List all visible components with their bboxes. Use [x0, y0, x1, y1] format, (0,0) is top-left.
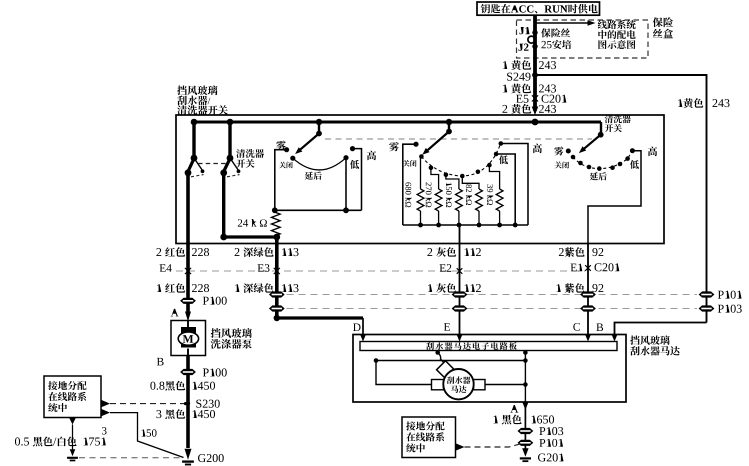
ground distribution callout box (right)	[402, 417, 456, 458]
connector P103 (right)	[699, 305, 715, 311]
pin D arrow	[353, 323, 361, 331]
washer pump box	[171, 321, 206, 356]
connector P100 (ground side)	[180, 369, 196, 375]
wafer 2 pivot	[446, 119, 452, 125]
wire: washer sw2 output to delay node	[222, 173, 225, 237]
switch assembly label	[177, 86, 187, 96]
fuse box (dashed)	[517, 20, 649, 58]
wire: 1 black 1650 to G201	[524, 402, 526, 451]
dashed line to P101	[287, 294, 698, 296]
in-line connector E1 / C201	[571, 264, 577, 272]
wire: ground box to G200 (circuit 150)	[101, 409, 110, 417]
pin A of washer pump	[171, 309, 179, 317]
connector P101 (right)	[699, 291, 715, 297]
washer pump label	[211, 328, 221, 338]
node: brush feed from board	[435, 350, 440, 355]
power feed label box: key in ACC/RUN	[477, 2, 600, 15]
wire: 2 dk green 113 / 1 dk green 113 to pin D	[275, 237, 279, 318]
wafer 1 MIST contact	[276, 140, 286, 149]
wire: 0.5 black/white 1751 to ground	[69, 418, 76, 425]
wiper motor M	[443, 369, 473, 399]
resistor 39k	[487, 184, 493, 188]
pin E arrow	[444, 323, 450, 331]
pass-through dashed line E4/E3/E2/E1	[176, 270, 585, 272]
connector P101 (motor ground)	[518, 440, 534, 446]
wafer 3 MIST contact	[554, 146, 563, 155]
arrow into wiper/washer switch	[532, 107, 539, 116]
grommet E4	[160, 264, 166, 272]
washer pump motor M	[181, 327, 196, 348]
node: delay output junction	[273, 234, 280, 241]
wafer 1 DELAY arc	[293, 158, 346, 170]
connector pair on purple wire	[580, 291, 596, 297]
wafer 3 contact arc (dashed with studs)	[573, 151, 632, 169]
wire: main feed from key power into fuse	[533, 15, 537, 110]
fuse F25 symbol with terminals J1 J2	[519, 27, 524, 34]
wafer 1 HIGH contact	[350, 146, 355, 151]
splice S249	[532, 72, 538, 78]
resistor 150k	[446, 183, 452, 186]
pin B arrow	[596, 323, 603, 331]
pin A arrow out of motor	[510, 405, 518, 413]
pin B of washer pump	[157, 358, 164, 366]
resistor 82k	[466, 184, 472, 188]
wiper motor electronic circuit board	[360, 342, 617, 351]
wire label 1 yellow 243 below S249	[503, 84, 507, 92]
arrow to distribution diagram note	[535, 22, 588, 24]
windshield wiper motor outer box	[353, 335, 626, 403]
wafer 1 LOW contact	[343, 155, 348, 160]
windshield wiper/washer switch outer box	[176, 115, 664, 244]
resistor 24 kOhm	[238, 219, 242, 226]
resistor 680k	[405, 182, 411, 186]
dashed line to P103	[287, 308, 698, 310]
node: green wire corner to D	[274, 315, 280, 321]
grommet E3	[258, 264, 264, 272]
wire label 0.8 black 1450	[150, 382, 155, 390]
wire: board to pin A vertical	[524, 351, 526, 403]
gang dashed link line across switches	[325, 138, 592, 140]
wafer 3 pivot	[600, 122, 602, 135]
wafer 3 LOW contact	[630, 160, 639, 169]
wiper motor terminals	[432, 380, 444, 390]
wire label 2 yellow 243	[502, 105, 507, 113]
connector P103 (motor ground)	[518, 428, 534, 434]
pin C arrow	[573, 323, 580, 331]
wafer 1 OFF contact	[290, 156, 295, 161]
washer switch contact 2	[227, 119, 234, 126]
wafer 2 OFF contact	[403, 160, 410, 167]
ground distribution callout box (left)	[44, 376, 101, 418]
in-line connector E5 / C201	[516, 95, 522, 103]
node: feed joins rail	[532, 119, 539, 126]
dashed reference to S230	[101, 400, 110, 408]
brush block (rotated square)	[437, 361, 455, 379]
wafer 2 contact arc (dashed with studs)	[421, 144, 500, 177]
wiper switch wafer 1 pivot	[316, 119, 322, 125]
wafer 2 HIGH contact	[501, 144, 528, 226]
wafer 2 wiper blade	[427, 132, 449, 151]
wire label 1 red 228	[157, 284, 161, 292]
wafer 1 common rail	[275, 209, 362, 211]
fuse box label 保险丝盒	[653, 17, 663, 27]
wafer 2 common rail	[403, 224, 528, 226]
resistor 270k	[426, 182, 432, 185]
ground (left)	[70, 449, 76, 456]
washer switch gang dashes	[198, 163, 227, 165]
wafer 3 HIGH contact and output wire	[630, 148, 635, 153]
wire: motor internal bus	[376, 360, 525, 362]
wafer 3 OFF label	[555, 162, 562, 169]
washer switch contact 1 (left)	[191, 119, 198, 126]
wire: 2 purple 92 / 1 purple 92 to pin C	[587, 244, 589, 337]
connector pair on green wire	[269, 291, 285, 297]
brush lead	[438, 353, 445, 364]
wafer 2 MIST contact	[389, 142, 399, 151]
wire label 3 black 1450	[156, 410, 161, 418]
wire: pump ground side down to G200	[186, 356, 190, 449]
ground G201	[522, 448, 528, 457]
fuse value label 25A	[541, 28, 550, 37]
dashed reference to motor ground wire	[456, 443, 465, 451]
connector pair on gray wire	[452, 291, 468, 297]
wire: 2 red 228 / 1 red 228 down to washer pump	[186, 173, 190, 312]
ground G200	[185, 449, 192, 460]
wire: right branch to pin B	[615, 323, 707, 337]
splice S230	[186, 402, 190, 406]
wiper motor label	[630, 336, 639, 345]
dashed link to G200	[79, 457, 181, 459]
wafer 1 wiper blade	[300, 134, 320, 151]
wire label 1 yellow 243	[503, 61, 507, 69]
wafer 2 LOW contact	[496, 154, 515, 225]
connector P100 (feed)	[180, 298, 196, 304]
wire: 2 gray 112 / 1 gray 112 to pin E	[459, 225, 461, 336]
wire: S249 right branch 1 yellow 243 to P101/P103	[535, 75, 707, 323]
wafer 3 label	[605, 115, 613, 123]
wire: top supply rail inside switch	[193, 120, 602, 123]
grommet E2	[440, 264, 446, 272]
wafer 3 wiper blade	[584, 135, 601, 150]
washer switch label	[236, 149, 245, 158]
